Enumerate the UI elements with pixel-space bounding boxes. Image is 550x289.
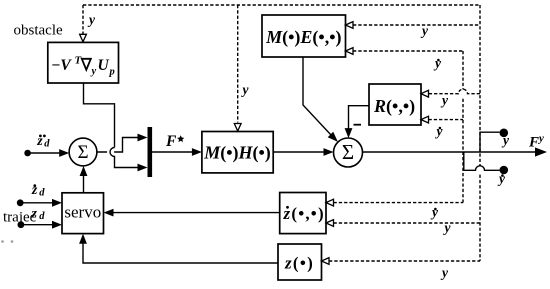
svg-text:M(•)H(•): M(•)H(•) bbox=[203, 143, 271, 164]
svg-text:M(•)E(•,•): M(•)E(•,•) bbox=[265, 27, 341, 48]
svg-text:y: y bbox=[501, 133, 510, 148]
svg-text:Σ: Σ bbox=[77, 142, 88, 163]
svg-text:y: y bbox=[440, 93, 449, 108]
svg-text:d: d bbox=[39, 188, 45, 199]
svg-text:y: y bbox=[443, 220, 452, 235]
svg-text:servo: servo bbox=[64, 203, 101, 222]
svg-text:y: y bbox=[420, 23, 429, 38]
svg-text:y: y bbox=[435, 124, 444, 139]
svg-text:z(•,•): z(•,•) bbox=[283, 204, 325, 223]
svg-text:R(•,•): R(•,•) bbox=[373, 96, 415, 117]
svg-text:z(•): z(•) bbox=[284, 254, 314, 273]
svg-text:F: F bbox=[528, 135, 539, 151]
svg-text:F: F bbox=[165, 133, 177, 150]
svg-text:y: y bbox=[497, 171, 506, 186]
svg-text:y: y bbox=[430, 205, 439, 220]
svg-text:y: y bbox=[440, 265, 449, 280]
svg-text:y: y bbox=[241, 82, 250, 97]
svg-text:d: d bbox=[39, 211, 45, 222]
svg-text:p: p bbox=[109, 67, 115, 78]
svg-text:y: y bbox=[87, 12, 96, 27]
svg-text:Σ: Σ bbox=[342, 140, 354, 164]
svg-text:y: y bbox=[433, 56, 442, 71]
svg-text:−V: −V bbox=[52, 57, 73, 74]
svg-text:obstacle: obstacle bbox=[14, 23, 63, 39]
svg-text:z: z bbox=[31, 207, 38, 222]
svg-text:y: y bbox=[90, 66, 97, 77]
svg-text:y: y bbox=[537, 133, 544, 145]
svg-text:d: d bbox=[44, 138, 50, 149]
svg-text:U: U bbox=[98, 57, 110, 74]
